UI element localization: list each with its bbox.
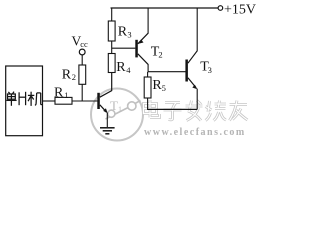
wire rail to R3 <box>111 8 113 21</box>
svg-text:R: R <box>116 60 126 75</box>
T3 collector wire to rail <box>196 8 198 51</box>
svg-text:1: 1 <box>64 90 68 100</box>
+15V terminal <box>218 6 223 11</box>
T2 collector <box>138 54 148 65</box>
svg-text:R: R <box>54 86 64 101</box>
text 单片机 (drawn strokes) <box>6 92 16 106</box>
T3 emitter (NPN arrow out) <box>188 78 196 88</box>
T3 collector <box>188 51 197 63</box>
svg-text:R: R <box>118 24 128 39</box>
ground <box>100 128 115 134</box>
T2 emitter (PNP arrow into bar) <box>138 33 148 44</box>
T2 collector wire <box>147 64 149 72</box>
wire R5 top <box>147 72 149 77</box>
watermark logo circle <box>91 89 143 141</box>
T1 collector <box>100 73 112 98</box>
svg-text:3: 3 <box>127 30 131 40</box>
wire T2 collector to T3 base <box>148 71 186 73</box>
svg-text:+15V: +15V <box>224 2 256 17</box>
Vcc terminal <box>79 49 85 55</box>
svg-text:cc: cc <box>80 39 88 49</box>
bottom rail <box>147 108 197 110</box>
T1 emitter wire <box>106 113 108 127</box>
resistor R5 <box>144 77 151 98</box>
microcontroller box 单片机 <box>6 66 43 136</box>
resistor R2 <box>79 65 86 84</box>
wire Vcc to R2 <box>81 55 83 65</box>
transistor T2 <box>135 40 138 58</box>
wire R3 to R4 <box>111 41 113 54</box>
+15V rail <box>111 7 219 9</box>
svg-text:2: 2 <box>72 72 76 82</box>
resistor R3 <box>108 21 115 41</box>
watermark logo small circle A <box>108 110 115 117</box>
transistor T3 <box>185 60 188 82</box>
wire R1 to T1 base <box>72 100 98 102</box>
wire node to T2 base <box>112 47 136 49</box>
resistor R1 <box>55 97 72 104</box>
wire R5 bottom <box>147 98 149 109</box>
svg-text:2: 2 <box>158 50 162 60</box>
T3 emitter wire <box>196 89 198 110</box>
svg-text:5: 5 <box>162 83 166 93</box>
T2 emitter wire to rail <box>147 8 149 34</box>
wire R2 to base node <box>81 84 83 101</box>
svg-text:4: 4 <box>126 65 131 75</box>
watermark logo needle <box>106 101 141 120</box>
svg-text:R: R <box>62 68 72 83</box>
svg-text:3: 3 <box>208 65 212 75</box>
wire box to R1 <box>43 100 56 102</box>
watermark logo small circle B <box>128 102 136 110</box>
transistor T1 <box>97 93 100 109</box>
T1 emitter <box>100 105 107 112</box>
svg-text:www.elecfans.com: www.elecfans.com <box>144 127 246 138</box>
resistor R4 <box>108 54 115 73</box>
